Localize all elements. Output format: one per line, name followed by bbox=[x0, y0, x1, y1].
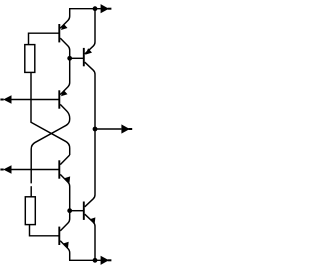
resistor R2 bbox=[25, 197, 35, 225]
wire node B to Q5 base bbox=[70, 210, 83, 212]
output port arrow bbox=[121, 124, 129, 133]
transistor Q6 NPN bar bbox=[58, 227, 60, 245]
V+ port arrow bbox=[101, 4, 109, 13]
bottom rail wire bbox=[69, 259, 101, 261]
Q3 collector diagonal, cross wire down-left to R2 top bbox=[31, 104, 69, 183]
Q5 collector diagonal and wire up to output node bbox=[85, 129, 95, 207]
transistor Q2 PNP bar bbox=[83, 48, 85, 66]
Q4 emitter arrow bbox=[65, 176, 71, 183]
input port 1 arrow bbox=[3, 95, 11, 103]
transistor Q5 NPN bar bbox=[83, 202, 85, 220]
output wire bbox=[95, 128, 121, 130]
transistor Q1 PNP bar bbox=[58, 24, 60, 42]
Q2 collector diagonal and wire to output node bbox=[85, 62, 95, 129]
Q1 emitter arrow bbox=[61, 24, 68, 30]
wire R1 top to Q1 base bbox=[29, 33, 59, 45]
Q5 emitter arrow bbox=[90, 217, 96, 224]
wire segment above R2 after gap bbox=[30, 186, 32, 197]
Q6 emitter diagonal and wire to bottom rail bbox=[60, 241, 69, 261]
Q4 collector diagonal bbox=[60, 155, 69, 165]
node A junction dot bbox=[67, 56, 72, 61]
wire top dot down to Q2 emitter corner bbox=[85, 9, 95, 54]
top rail wire bbox=[69, 8, 101, 10]
Q4 emitter diagonal and wire to node B bbox=[60, 174, 69, 210]
Q1 emitter diagonal and wire to top rail bbox=[60, 9, 69, 29]
V- port arrow bbox=[101, 256, 109, 265]
input port 2 arrow bbox=[3, 165, 11, 173]
Q1 collector diagonal and wire to node A bbox=[60, 38, 69, 58]
Q5 emitter diagonal and wire to bottom rail bbox=[85, 214, 95, 260]
cross wire R1 bottom down-right to Q4 collector bbox=[31, 122, 70, 155]
junction dot on bottom rail bbox=[93, 258, 98, 263]
wire R2 bottom to Q6 base bbox=[30, 224, 59, 235]
junction dot on top rail bbox=[93, 6, 98, 11]
input 1 wire to Q3 base bbox=[11, 99, 58, 101]
transistor Q4 NPN bar bbox=[58, 160, 60, 178]
input 2 wire to Q4 base bbox=[11, 169, 58, 171]
output junction dot bbox=[93, 127, 98, 132]
Q2 emitter arrow bbox=[85, 48, 92, 54]
resistor R1 bbox=[25, 45, 35, 73]
Q3 emitter arrow bbox=[61, 90, 68, 96]
Q6 emitter arrow bbox=[63, 242, 69, 249]
wire node A to Q2 base bbox=[70, 57, 83, 59]
node B junction dot bbox=[67, 208, 72, 213]
Q6 collector diagonal and wire up to node B bbox=[60, 211, 69, 231]
Q3 emitter diagonal and wire up to node A bbox=[60, 58, 69, 94]
transistor Q3 PNP bar bbox=[58, 90, 60, 108]
wire R1 bottom down bbox=[30, 72, 32, 122]
